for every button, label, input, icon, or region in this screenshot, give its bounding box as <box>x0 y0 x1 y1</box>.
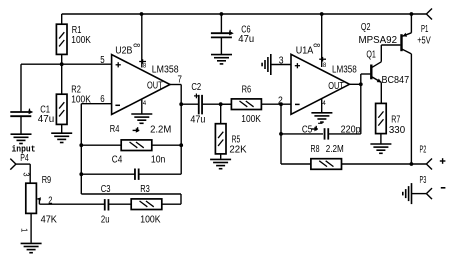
svg-text:100K: 100K <box>140 215 160 226</box>
ground pin3 input <box>262 54 271 75</box>
ground U2B pin4 <box>131 114 152 123</box>
R9 pin3 label <box>22 172 32 176</box>
resistor R7 <box>376 103 406 143</box>
ground C1 <box>11 134 32 143</box>
junction pin7/C2 <box>179 102 183 106</box>
op-amp U1A <box>291 45 357 114</box>
svg-text:C3: C3 <box>101 184 111 195</box>
wire pin2 column <box>281 104 311 164</box>
svg-text:47K: 47K <box>41 215 58 226</box>
junction rail/U2B pin8 <box>140 12 144 16</box>
capacitor C6 <box>211 14 254 54</box>
resistor R5 <box>215 104 247 159</box>
svg-text:100K: 100K <box>241 114 261 125</box>
wire pin 3 <box>271 56 291 67</box>
junction rail/C6 <box>220 12 224 16</box>
svg-text:330: 330 <box>389 125 406 136</box>
capacitor C3 <box>39 184 131 226</box>
resistor R6 <box>221 85 291 126</box>
pin 2 label <box>278 95 283 106</box>
svg-text:P1: P1 <box>421 24 429 35</box>
U2B pin 4 ground <box>142 100 147 114</box>
ground R7 <box>370 144 391 153</box>
transistor Q1 <box>366 45 409 103</box>
svg-text:2u: 2u <box>101 215 110 226</box>
svg-text:100K: 100K <box>71 35 91 46</box>
R9 pin2 label <box>48 195 53 206</box>
svg-text:7: 7 <box>178 75 183 86</box>
wire output line <box>342 163 427 165</box>
resistor R1 <box>56 14 91 64</box>
svg-text:Q2: Q2 <box>361 22 371 33</box>
svg-text:MPSA92: MPSA92 <box>359 35 398 46</box>
svg-text:C4: C4 <box>112 154 123 165</box>
svg-text:8: 8 <box>143 62 147 69</box>
resistor R4 <box>81 124 181 150</box>
junction node/R4 <box>79 143 83 147</box>
R4 polarity mark <box>133 123 143 133</box>
potentiometer R9 <box>26 175 57 243</box>
input label <box>12 144 36 155</box>
svg-text:R8: R8 <box>311 144 320 155</box>
svg-text:4: 4 <box>322 100 326 107</box>
svg-text:P3: P3 <box>420 175 427 186</box>
svg-text:47u: 47u <box>38 114 54 125</box>
svg-text:OUT: OUT <box>147 80 163 91</box>
ground P3 <box>403 183 412 204</box>
svg-text:BC847: BC847 <box>382 75 410 86</box>
connector P2 <box>420 144 446 169</box>
svg-text:U1A: U1A <box>296 45 314 56</box>
resistor R2 <box>56 64 91 133</box>
pin 5 label <box>100 55 105 66</box>
U2B pin 8 power <box>132 14 147 69</box>
svg-text:R3: R3 <box>140 184 150 195</box>
connector P4 <box>10 153 30 183</box>
svg-text:1: 1 <box>19 228 29 232</box>
svg-text:P4: P4 <box>20 153 29 164</box>
wire node pin5 <box>21 63 112 65</box>
junction node/C4 <box>79 172 83 176</box>
svg-text:Q1: Q1 <box>366 50 376 61</box>
svg-text:P2: P2 <box>420 144 427 155</box>
resistor R8 <box>311 144 344 169</box>
svg-text:2.2M: 2.2M <box>150 124 171 135</box>
svg-text:47u: 47u <box>190 115 205 126</box>
svg-text:22K: 22K <box>229 145 247 156</box>
capacitor C1 <box>10 64 54 134</box>
ground R2 <box>51 133 72 142</box>
svg-text:3: 3 <box>22 172 32 176</box>
wire U2B output pin 7 <box>170 75 182 146</box>
svg-text:R4: R4 <box>110 124 120 135</box>
junction C2/R5/R6 <box>219 102 223 106</box>
R4 value <box>150 124 171 135</box>
svg-text:LM358: LM358 <box>152 64 179 75</box>
svg-text:R7: R7 <box>391 115 400 126</box>
junction rail/U1A pin8 <box>320 12 324 16</box>
ground R9 <box>21 243 42 252</box>
svg-text:8: 8 <box>132 43 142 47</box>
junction Q2 collector/output <box>410 162 414 166</box>
capacitor C4 <box>81 145 181 180</box>
wire U1A output <box>350 74 371 84</box>
svg-text:3: 3 <box>279 56 284 67</box>
transistor Q2 <box>359 14 412 164</box>
svg-text:C2: C2 <box>191 82 201 93</box>
wire +5V top rail <box>62 13 427 15</box>
wire pin6 node <box>81 104 181 205</box>
capacitor C2 <box>181 82 231 125</box>
connector P3 <box>420 175 446 199</box>
svg-text:8: 8 <box>323 62 327 69</box>
svg-text:10n: 10n <box>151 154 165 165</box>
svg-text:47u: 47u <box>238 34 254 45</box>
svg-text:4: 4 <box>143 100 147 107</box>
capacitor C5 <box>281 84 361 139</box>
junction R6/pin2/R8 <box>279 102 283 106</box>
junction pin7/R4/C4 <box>179 143 183 147</box>
svg-text:5: 5 <box>100 55 105 66</box>
ground U1A pin4 <box>311 113 332 122</box>
svg-text:R6: R6 <box>242 85 252 96</box>
svg-text:OUT: OUT <box>328 81 344 92</box>
junction R1/R2/C1/pin5 <box>60 62 64 66</box>
U1A pin 8 power <box>312 14 327 69</box>
wire P3 <box>412 193 427 195</box>
pin 6 label <box>100 94 105 105</box>
R9 pin1 label <box>19 228 29 232</box>
junction rail/Q2 <box>410 12 414 16</box>
svg-text:8: 8 <box>312 43 322 47</box>
svg-text:C5: C5 <box>302 124 313 135</box>
U1A pin 4 ground <box>322 99 326 113</box>
svg-text:+5V: +5V <box>417 36 431 47</box>
svg-text:220p: 220p <box>341 124 361 135</box>
connector P1 <box>417 9 432 47</box>
junction pin2/C5 <box>279 132 283 136</box>
ground C6 <box>211 55 232 64</box>
op-amp U2B <box>112 46 179 115</box>
svg-text:2.2M: 2.2M <box>326 144 344 155</box>
resistor R3 <box>131 184 162 226</box>
svg-text:R9: R9 <box>42 175 52 186</box>
svg-text:U2B: U2B <box>115 46 132 57</box>
ground R5 <box>210 159 231 168</box>
svg-text:LM358: LM358 <box>332 64 357 75</box>
junction output/feedback <box>359 82 363 86</box>
